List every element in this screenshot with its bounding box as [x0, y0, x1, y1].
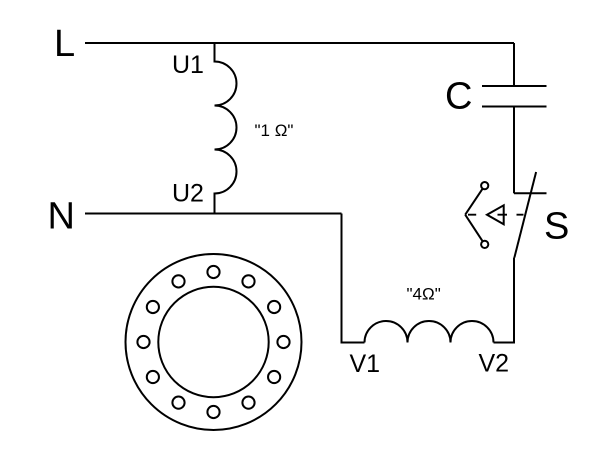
svg-text:U2: U2	[172, 180, 204, 208]
svg-text:L: L	[54, 23, 75, 65]
wire N line	[85, 213, 342, 215]
main winding U1-U2 inductor	[215, 43, 237, 214]
motor stator slot circle 10 o'clock	[147, 301, 159, 313]
motor stator slot circle 12 o'clock	[207, 266, 219, 278]
motor stator slot circle 6 o'clock	[207, 406, 219, 418]
motor stator slot circle 8 o'clock	[147, 371, 159, 383]
motor stator slot circle 7 o'clock	[172, 397, 184, 409]
switch actuator circle upper	[481, 182, 488, 189]
switch actuator dashed linkage	[468, 214, 524, 216]
motor stator slot circle 4 o'clock	[268, 371, 280, 383]
wire V2 to switch	[494, 258, 515, 343]
svg-text:V2: V2	[479, 350, 510, 378]
motor stator outer circle	[126, 254, 302, 430]
svg-text:N: N	[48, 195, 75, 237]
wire capacitor to switch contact	[513, 107, 515, 194]
motor stator slot circle 3 o'clock	[277, 336, 289, 348]
switch S blade	[514, 172, 536, 258]
switch actuator link line lower	[465, 215, 485, 245]
motor stator inner circle	[158, 287, 268, 397]
svg-text:V1: V1	[350, 350, 381, 378]
switch actuator link line upper	[465, 186, 485, 215]
aux winding V1-V2 inductor	[365, 321, 494, 343]
switch S fixed contact tick	[514, 192, 547, 194]
motor stator slot circle 5 o'clock	[242, 397, 254, 409]
switch actuator circle lower	[481, 241, 488, 248]
svg-text:"4Ω": "4Ω"	[407, 285, 441, 304]
wire N to aux winding	[342, 214, 365, 343]
svg-text:U1: U1	[172, 51, 204, 79]
svg-text:"1 Ω": "1 Ω"	[255, 121, 294, 140]
motor stator slot circle 2 o'clock	[268, 301, 280, 313]
motor stator slot circle 9 o'clock	[137, 336, 149, 348]
wire L line	[85, 42, 514, 44]
svg-text:C: C	[445, 76, 472, 118]
wire L to capacitor	[513, 43, 515, 86]
motor stator slot circle 1 o'clock	[242, 275, 254, 287]
capacitor C plates	[482, 86, 547, 107]
motor stator slot circle 11 o'clock	[172, 275, 184, 287]
switch actuator arrow triangle	[487, 205, 504, 224]
svg-text:S: S	[544, 206, 569, 248]
